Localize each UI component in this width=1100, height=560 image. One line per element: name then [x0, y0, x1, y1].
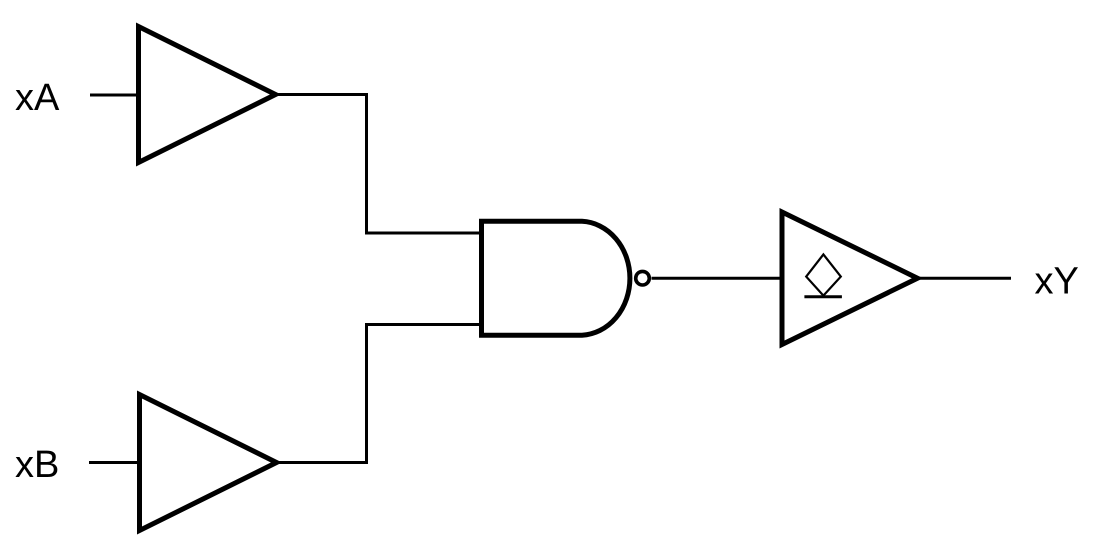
buffer U4 (open-drain output buffer)	[782, 212, 918, 345]
open-drain underline	[804, 295, 842, 298]
svg-text:xB: xB	[15, 444, 59, 486]
buffer U2 (xB input buffer)	[140, 395, 277, 531]
open-drain diamond symbol inside U4	[806, 254, 841, 295]
wire buffer U2 output to NAND bottom input	[275, 325, 480, 463]
wire xB input	[89, 461, 140, 464]
NAND gate U3 body	[482, 221, 630, 335]
buffer U1 (xA input buffer)	[139, 27, 276, 163]
svg-text:xA: xA	[15, 77, 60, 119]
NAND gate U3 inversion bubble	[636, 271, 650, 285]
svg-text:xY: xY	[1035, 261, 1079, 303]
wire buffer U1 output to NAND top input	[274, 95, 480, 234]
wire xA input	[90, 94, 139, 97]
wire output buffer to xY	[916, 277, 1011, 280]
wire NAND output to output buffer	[652, 277, 783, 280]
